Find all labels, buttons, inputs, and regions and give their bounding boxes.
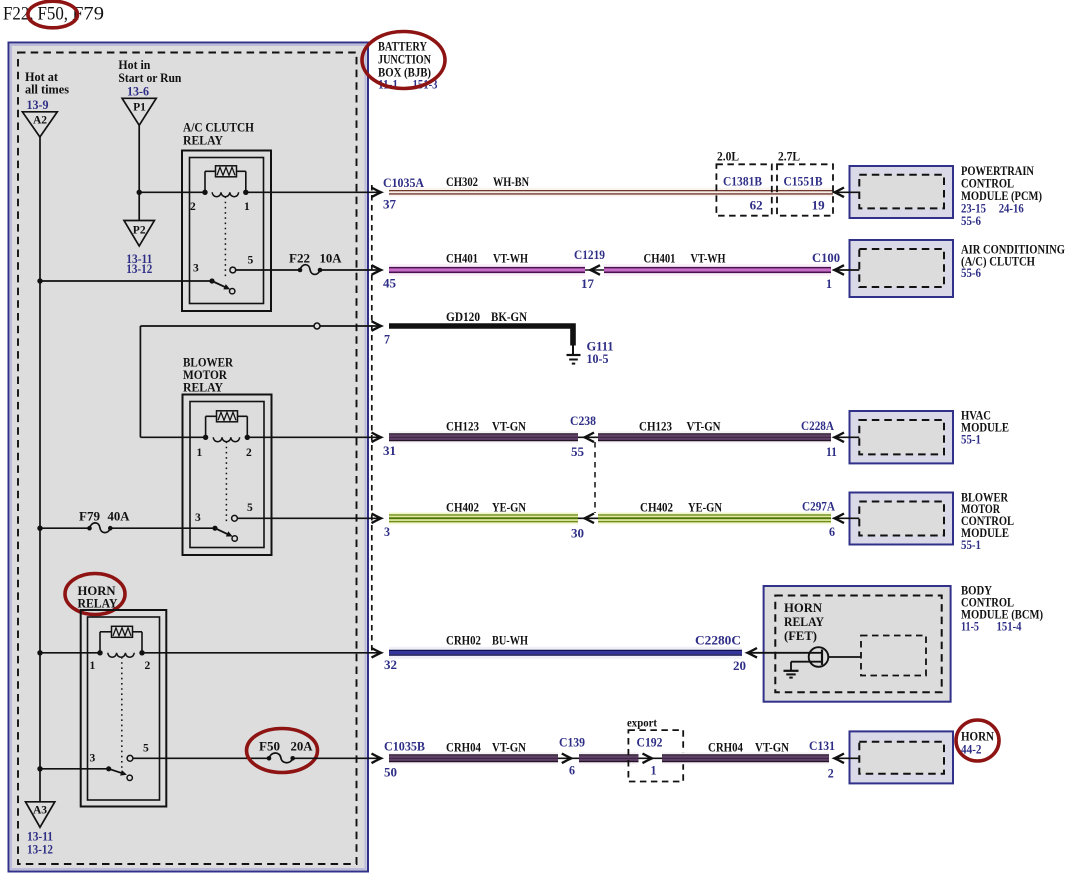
- wire pin5 to fuse F50: [133, 757, 269, 759]
- red highlight ellipse around F50: [28, 1, 78, 28]
- svg-text:50: 50: [384, 766, 397, 780]
- BJB pin 7 arrow: [372, 321, 382, 331]
- svg-text:CH402: CH402: [640, 501, 673, 515]
- connector C192 pin 1: [639, 757, 663, 759]
- svg-text:VT-WH: VT-WH: [691, 252, 726, 266]
- power triangle P1: [122, 98, 156, 125]
- svg-text:13-6: 13-6: [127, 85, 149, 99]
- svg-text:2: 2: [828, 767, 834, 781]
- node junction on A2 bus y281: [37, 278, 42, 283]
- svg-text:JUNCTION: JUNCTION: [378, 53, 431, 67]
- module HVAC MODULE: [850, 411, 954, 463]
- node junction on A2 bus y528: [37, 526, 42, 531]
- svg-text:55: 55: [571, 445, 584, 459]
- svg-text:C238: C238: [570, 414, 596, 428]
- relay blower outer box: [183, 395, 272, 556]
- svg-text:CH402: CH402: [446, 501, 479, 515]
- svg-text:2: 2: [190, 201, 196, 213]
- relay horn coil with parallel resistor, pins 1 and 2: [99, 632, 101, 653]
- svg-text:7: 7: [384, 333, 390, 347]
- svg-text:YE-GN: YE-GN: [492, 501, 526, 515]
- svg-text:1: 1: [244, 201, 250, 213]
- relay actuation dotted link: [224, 197, 226, 279]
- BJB connector C1035B pin 50 arrow: [372, 754, 382, 764]
- wire pin5 to fuse F22: [236, 269, 300, 271]
- relay coil with parallel resistor, pins 2 and 1: [204, 171, 206, 192]
- svg-text:5: 5: [143, 743, 149, 755]
- BJB connector C1035A pin 37 arrow: [372, 188, 382, 198]
- svg-text:2.0L: 2.0L: [717, 150, 739, 164]
- svg-text:19: 19: [812, 199, 825, 213]
- svg-text:C192: C192: [637, 736, 663, 750]
- svg-text:C1551B: C1551B: [784, 175, 823, 189]
- svg-text:export: export: [627, 718, 657, 730]
- red highlight ellipse around BJB label: [362, 32, 445, 89]
- wire fuse F50 to BJB edge row50: [293, 757, 381, 759]
- svg-text:P1: P1: [133, 102, 146, 114]
- BCM inner dashed block: [861, 636, 926, 676]
- relay actuation dotted link: [121, 657, 123, 772]
- svg-text:all times: all times: [25, 83, 69, 97]
- wire CRH04 VT-GN segment 3: [662, 752, 829, 764]
- wire CH401 VT-WH segment 1: [389, 264, 585, 276]
- module HORN: [850, 731, 954, 783]
- BJB pin 3 arrow: [372, 514, 382, 524]
- node junction on A2 bus y652: [37, 650, 42, 655]
- PCM side arrow and stub: [835, 191, 860, 193]
- wire CH401 VT-WH segment 2: [604, 264, 831, 276]
- svg-text:2.7L: 2.7L: [778, 150, 800, 164]
- relay contact pin 5: [232, 515, 238, 521]
- connector C238 pin 55: [578, 436, 598, 438]
- svg-text:F22: F22: [289, 252, 310, 266]
- FET source stub to ground: [791, 661, 821, 663]
- module AIR CONDITIONING (A/C) CLUTCH: [850, 240, 954, 297]
- relay blower coil with parallel resistor, pins 1 and 2: [205, 416, 207, 437]
- power triangle A2: [22, 112, 57, 137]
- svg-text:6: 6: [569, 764, 575, 778]
- wire pin5 to BJB edge row3: [238, 517, 381, 519]
- wire CH402 YE-GN segment 2: [598, 512, 831, 524]
- svg-text:151-4: 151-4: [997, 620, 1022, 634]
- svg-text:C2280C: C2280C: [695, 634, 741, 648]
- svg-text:A/C CLUTCH: A/C CLUTCH: [183, 121, 254, 135]
- svg-text:2: 2: [145, 660, 151, 672]
- svg-text:20: 20: [733, 659, 746, 673]
- svg-text:55-1: 55-1: [961, 538, 981, 552]
- wire CH123 VT-GN segment 2: [598, 431, 831, 443]
- svg-text:RELAY: RELAY: [78, 597, 118, 611]
- svg-text:C139: C139: [559, 736, 585, 750]
- connector C238 dashed gang line: [594, 442, 596, 513]
- red highlight ellipse around HORN 44-2: [956, 720, 999, 761]
- svg-text:HORN: HORN: [961, 730, 994, 744]
- svg-text:11-5: 11-5: [961, 620, 979, 634]
- svg-text:BU-WH: BU-WH: [492, 634, 528, 648]
- splice eyelet on ground wire: [314, 323, 320, 329]
- svg-text:30: 30: [571, 527, 584, 541]
- wire fuse to BJB edge row45: [320, 269, 381, 271]
- svg-text:17: 17: [581, 277, 594, 291]
- node junction on A2 bus y768: [37, 766, 42, 771]
- svg-text:31: 31: [383, 444, 396, 458]
- ground inside BCM: [784, 670, 799, 672]
- wire into FET gate bar: [748, 652, 823, 654]
- svg-text:Start or Run: Start or Run: [118, 71, 181, 85]
- ground symbol G111: [567, 354, 581, 356]
- svg-text:CRH02: CRH02: [446, 634, 481, 648]
- relay A/C clutch outer box: [182, 151, 271, 312]
- svg-text:HORN: HORN: [784, 601, 822, 615]
- wire CH123 VT-GN segment 1: [389, 431, 578, 443]
- red highlight ellipse around F50 fuse: [247, 729, 318, 773]
- wire A2 vertical bus: [39, 137, 41, 802]
- wire blower coil pin2 to BJB edge row31: [247, 436, 381, 438]
- FET driver circle symbol: [809, 647, 829, 667]
- svg-text:F50,: F50,: [38, 5, 69, 25]
- node junction P1 line to A/C relay coil: [137, 190, 142, 195]
- svg-text:37: 37: [383, 198, 396, 212]
- svg-text:C228A: C228A: [801, 419, 834, 433]
- svg-text:GD120: GD120: [446, 310, 480, 324]
- svg-text:3: 3: [193, 263, 199, 275]
- wire CH402 YE-GN segment 1: [389, 512, 578, 524]
- svg-text:CH401: CH401: [644, 252, 676, 266]
- wire down to blower coil pin 1: [139, 326, 141, 437]
- module BODY CONTROL MODULE (BCM): [764, 586, 951, 702]
- relay armature: [209, 278, 214, 283]
- svg-text:CRH04: CRH04: [708, 741, 743, 755]
- wire A2 bus to blower pin 3 through fuse: [40, 527, 90, 529]
- svg-text:3: 3: [90, 753, 96, 765]
- svg-text:BK-GN: BK-GN: [491, 310, 527, 324]
- svg-text:55-1: 55-1: [961, 433, 981, 447]
- svg-text:1: 1: [197, 447, 203, 459]
- svg-text:WH-BN: WH-BN: [493, 175, 529, 189]
- red highlight ellipse around HORN RELAY: [65, 574, 125, 615]
- module POWERTRAIN CONTROL MODULE (PCM): [850, 166, 954, 218]
- power triangle P2: [124, 221, 154, 247]
- svg-text:C100: C100: [812, 251, 840, 265]
- BJB pin 31 arrow: [372, 433, 382, 443]
- wire CRH04 VT-GN segment 2: [579, 752, 639, 764]
- relay armature: [212, 526, 217, 531]
- svg-text:VT-GN: VT-GN: [492, 420, 526, 434]
- wire CH302 WH-BN: [389, 188, 833, 197]
- svg-text:32: 32: [384, 658, 397, 672]
- wire CRH02 BU-WH: [389, 647, 742, 659]
- wire CRH04 VT-GN segment 1: [389, 752, 558, 764]
- svg-text:VT-GN: VT-GN: [492, 741, 526, 755]
- svg-text:55-6: 55-6: [961, 266, 981, 280]
- BJB pin 32 arrow: [372, 648, 382, 658]
- svg-text:2: 2: [246, 447, 252, 459]
- svg-text:45: 45: [383, 277, 396, 291]
- BJB pin 45 arrow: [372, 265, 382, 275]
- svg-text:C1219: C1219: [574, 248, 605, 262]
- svg-text:13-12: 13-12: [27, 843, 53, 857]
- svg-text:F50: F50: [259, 740, 280, 754]
- svg-text:RELAY: RELAY: [183, 381, 223, 395]
- svg-text:VT-WH: VT-WH: [493, 252, 528, 266]
- svg-text:P2: P2: [133, 225, 146, 237]
- BJB connector face dashed line: [371, 185, 373, 653]
- connector C1219 pin 17: [585, 269, 604, 271]
- svg-text:13-11: 13-11: [27, 830, 53, 844]
- svg-text:3: 3: [384, 525, 390, 539]
- svg-text:11: 11: [826, 445, 837, 459]
- wire P1 to P2: [138, 125, 140, 220]
- svg-text:(FET): (FET): [784, 629, 817, 643]
- wire coil feed row y192: [139, 191, 205, 193]
- svg-text:10-5: 10-5: [587, 352, 609, 366]
- svg-text:VT-GN: VT-GN: [687, 420, 721, 434]
- wire A2 bus to horn pin 3: [40, 768, 109, 770]
- svg-text:6: 6: [829, 525, 835, 539]
- relay horn outer box: [81, 610, 167, 807]
- svg-text:1: 1: [90, 660, 96, 672]
- svg-text:5: 5: [248, 255, 254, 267]
- svg-text:13-9: 13-9: [27, 98, 49, 112]
- svg-text:CH123: CH123: [446, 420, 479, 434]
- svg-text:VT-GN: VT-GN: [755, 741, 789, 755]
- svg-text:Hot in: Hot in: [118, 58, 150, 72]
- svg-text:10A: 10A: [320, 252, 342, 266]
- svg-text:A2: A2: [33, 115, 47, 127]
- wire A2 bus to horn coil pin1 and out row32: [40, 652, 100, 654]
- svg-text:40A: 40A: [108, 510, 130, 524]
- svg-text:62: 62: [750, 199, 763, 213]
- svg-text:F79: F79: [79, 510, 100, 524]
- svg-text:13-12: 13-12: [126, 262, 152, 276]
- svg-text:1: 1: [826, 277, 832, 291]
- svg-text:CH123: CH123: [639, 420, 672, 434]
- svg-text:1: 1: [651, 764, 657, 778]
- svg-text:RELAY: RELAY: [784, 615, 824, 629]
- connector C139 pin 6: [558, 757, 579, 759]
- svg-text:24-16: 24-16: [999, 202, 1024, 216]
- svg-text:C131: C131: [809, 739, 835, 753]
- wire GD120 in-box run with eyelet: [140, 325, 381, 327]
- svg-text:55-6: 55-6: [961, 214, 981, 228]
- relay armature: [106, 766, 111, 771]
- svg-text:BATTERY: BATTERY: [378, 40, 427, 54]
- svg-text:C297A: C297A: [802, 500, 835, 514]
- svg-text:CRH04: CRH04: [446, 741, 481, 755]
- wire A2 bus to pin 3: [40, 280, 212, 282]
- svg-text:CH401: CH401: [446, 252, 478, 266]
- connector C238 pin 30: [578, 517, 598, 519]
- relay actuation dotted link: [225, 442, 227, 525]
- wire FET to inner dashed block: [828, 656, 861, 658]
- svg-text:C1035B: C1035B: [384, 740, 425, 754]
- BJB inner dashed border: [18, 53, 357, 865]
- power triangle A3: [26, 802, 55, 828]
- svg-text:20A: 20A: [291, 740, 313, 754]
- svg-text:3: 3: [195, 512, 201, 524]
- svg-text:RELAY: RELAY: [183, 134, 223, 148]
- svg-text:A3: A3: [33, 805, 47, 817]
- svg-text:CH302: CH302: [446, 175, 478, 189]
- battery junction box BJB outer box: [9, 43, 369, 872]
- svg-text:C1381B: C1381B: [723, 175, 762, 189]
- relay contact pin 5: [127, 755, 133, 761]
- relay contact pin 5: [230, 267, 236, 273]
- module BLOWER MOTOR CONTROL MODULE: [850, 493, 954, 545]
- svg-text:YE-GN: YE-GN: [688, 501, 722, 515]
- svg-text:5: 5: [247, 502, 253, 514]
